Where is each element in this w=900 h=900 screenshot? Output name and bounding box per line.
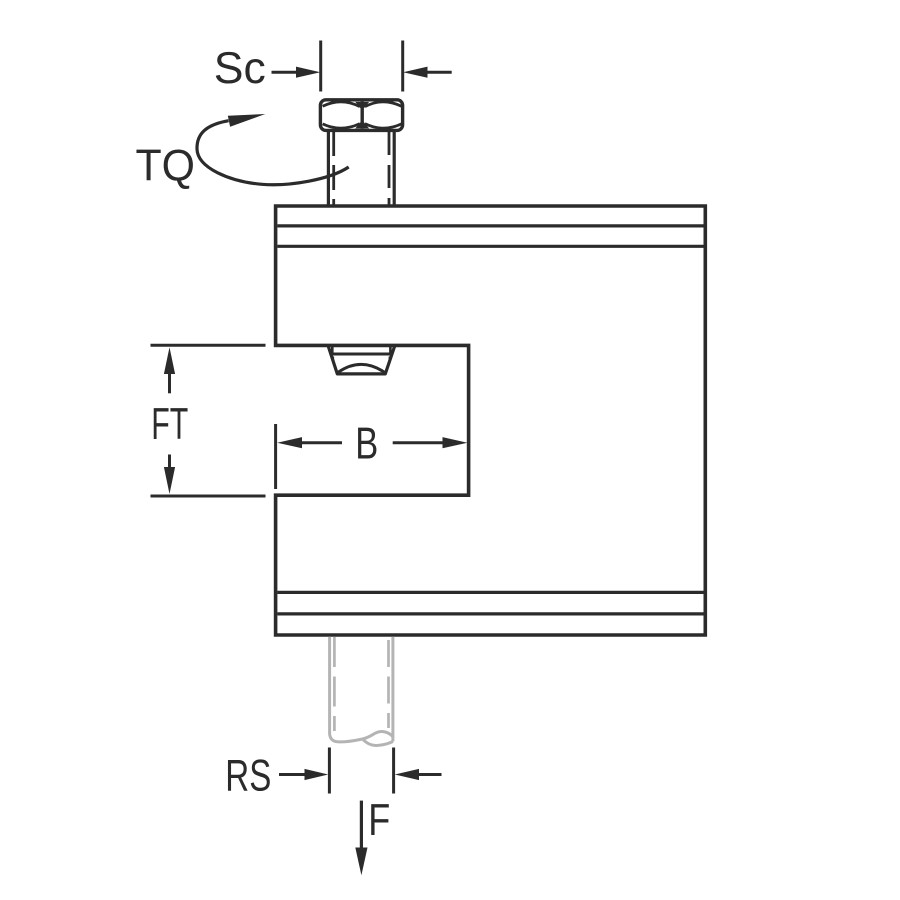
- dimension Sc right arrow: [403, 67, 452, 78]
- body bottom flange line 1: [277, 591, 703, 594]
- bolt tip in notch: [328, 346, 395, 374]
- dimension RS right arrow: [395, 769, 442, 780]
- svg-text:Sc: Sc: [214, 44, 266, 93]
- threaded rod left edge: [330, 637, 393, 742]
- svg-text:B: B: [355, 420, 378, 469]
- bolt shank: [328, 130, 394, 205]
- hex bolt head: [320, 100, 402, 131]
- dimension FT extension lines: [151, 345, 266, 496]
- dimension RS extension lines: [329, 748, 393, 794]
- dimension B left arrow: [277, 437, 342, 448]
- dimension Sc extension lines: [321, 41, 403, 92]
- bolt shank thread dashed lines: [334, 131, 389, 205]
- body top flange line 2: [277, 245, 703, 248]
- dimension RS left arrow: [279, 769, 328, 780]
- svg-text:F: F: [368, 796, 390, 845]
- dimension Sc left arrow: [272, 67, 321, 78]
- torque arc: [197, 114, 349, 185]
- svg-text:RS: RS: [225, 752, 271, 801]
- threaded rod dashed thread lines: [334, 637, 388, 731]
- body bottom flange line 2: [277, 612, 703, 615]
- svg-text:FT: FT: [151, 400, 188, 449]
- dimension B extension line: [274, 424, 277, 489]
- threaded rod break lens: [363, 739, 393, 746]
- body top flange line 1: [277, 224, 703, 227]
- force arrow F: [355, 801, 367, 876]
- dimension FT up arrow: [164, 347, 175, 393]
- clamp body outline: [276, 206, 706, 635]
- dimension FT down arrow: [164, 455, 175, 495]
- threaded rod right edge: [391, 637, 394, 742]
- dimension B right arrow: [393, 437, 468, 448]
- svg-text:TQ: TQ: [136, 142, 196, 191]
